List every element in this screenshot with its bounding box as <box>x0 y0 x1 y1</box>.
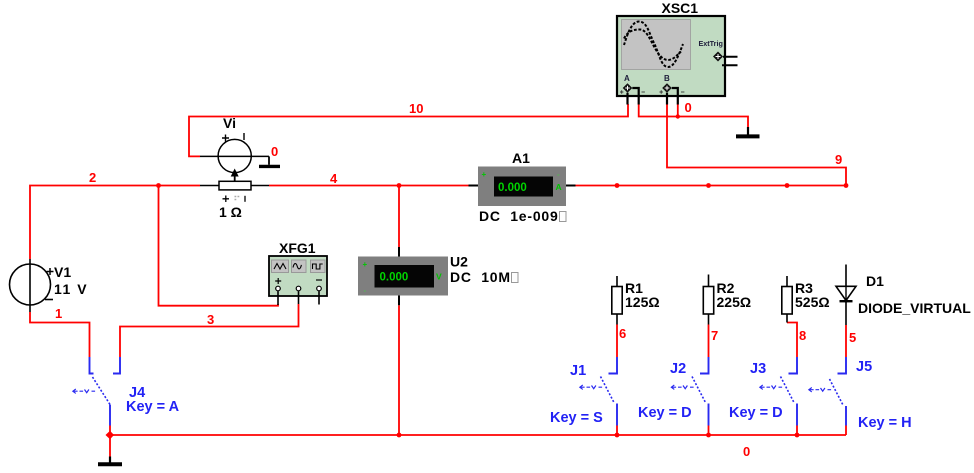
svg-text:DIODE_VIRTUAL: DIODE_VIRTUAL <box>858 300 971 316</box>
switch J4 <box>73 357 120 435</box>
wire scope ground net 0 <box>639 104 748 127</box>
U2 tofu box <box>512 273 519 283</box>
arrow into Vi <box>231 169 239 183</box>
svg-text:6: 6 <box>619 326 626 341</box>
svg-text:1: 1 <box>55 306 62 321</box>
wire net 5 (D1 to J5) <box>845 325 847 357</box>
svg-text:3: 3 <box>207 312 214 327</box>
switch J2 <box>671 357 708 435</box>
ammeter A1 <box>469 167 576 207</box>
wire net 10 (Vi left to scope A) <box>189 104 628 156</box>
junction node R3/main <box>785 183 790 188</box>
wire net 9 main (A1 to D1 column) <box>575 185 846 187</box>
svg-text:11 V: 11 V <box>54 281 88 297</box>
resistor R1 <box>612 276 622 325</box>
XFG1 terminal - <box>317 286 322 304</box>
wire net 6 (R1 to J1) <box>616 325 618 358</box>
junction node net4/U2 branch <box>397 183 402 188</box>
resistor 1 ohm trim marks <box>223 196 246 203</box>
junction node bus/J1 <box>615 433 620 438</box>
svg-text:5: 5 <box>849 330 856 345</box>
wire scope B minus stub <box>677 104 679 117</box>
svg-text:DC 10M: DC 10M <box>450 269 511 285</box>
resistor R3 <box>782 276 792 323</box>
wire ground stem bottom <box>109 435 111 457</box>
resistor R2 <box>703 275 713 325</box>
wire U2 top branch <box>398 186 400 248</box>
svg-text:DC 1e-009: DC 1e-009 <box>479 208 559 224</box>
svg-text:V: V <box>436 272 442 282</box>
wire net 4 (1-ohm to A1) <box>269 185 469 187</box>
switch J1 <box>580 357 617 435</box>
svg-text:Key = D: Key = D <box>638 405 692 421</box>
voltmeter U2 <box>358 247 448 305</box>
svg-text:Key = D: Key = D <box>729 405 783 421</box>
svg-text:+: + <box>482 170 487 179</box>
svg-text:J1: J1 <box>570 363 586 379</box>
voltage source V1 <box>10 259 54 312</box>
wire net 7 (R2 to J2) <box>708 325 710 358</box>
svg-text:B: B <box>664 74 670 83</box>
XSC1 sine trace A <box>624 22 683 68</box>
probe Vi circle <box>200 133 269 173</box>
svg-text:Key = A: Key = A <box>126 399 180 415</box>
wire U2 bottom to bus <box>398 305 400 435</box>
svg-text:A: A <box>556 182 562 192</box>
svg-text:0.000: 0.000 <box>498 182 527 194</box>
ground (Vi net 0) <box>259 156 280 166</box>
junction node bus/J2 <box>706 433 711 438</box>
wire net 9 (scope B down and across) <box>667 104 846 186</box>
junction node Bminus/net0 <box>676 114 680 118</box>
svg-text:0.000: 0.000 <box>380 272 409 284</box>
junction node R2/main <box>706 183 711 188</box>
svg-text:XFG1: XFG1 <box>279 240 316 256</box>
svg-text:Key = S: Key = S <box>550 410 603 426</box>
svg-text:4: 4 <box>330 171 338 186</box>
svg-text:Key = H: Key = H <box>858 415 912 431</box>
svg-text:ExtTrig: ExtTrig <box>699 39 723 48</box>
junction node D1/main <box>844 183 849 188</box>
svg-text:XSC1: XSC1 <box>662 0 699 16</box>
XFG1 button sine wave <box>292 260 307 273</box>
junction node bus/U2 <box>397 433 402 438</box>
ground (bottom left) <box>98 457 122 465</box>
wire net 8 (R3 to J3) <box>787 323 797 358</box>
svg-text:8: 8 <box>799 328 806 343</box>
junction node R1/main <box>615 183 620 188</box>
junction node bus/J3 <box>795 433 800 438</box>
XSC1 sine trace B <box>624 30 681 61</box>
oscilloscope XSC1 <box>617 16 725 96</box>
svg-text:A: A <box>624 74 630 83</box>
XFG1 terminal common <box>296 286 301 304</box>
XFG1 minus mark <box>316 279 322 281</box>
A1 tofu box <box>560 212 567 222</box>
function generator XFG1 <box>269 256 327 296</box>
wire ground bus net 0 <box>110 434 846 436</box>
svg-text:10: 10 <box>409 101 423 116</box>
svg-text:0: 0 <box>685 100 692 115</box>
svg-text:A1: A1 <box>512 150 530 166</box>
svg-text:J3: J3 <box>750 361 766 377</box>
svg-text:225Ω: 225Ω <box>717 294 752 310</box>
XFG1 terminal + <box>276 286 281 305</box>
XSC1 connector A <box>620 83 645 104</box>
svg-text:J5: J5 <box>856 359 872 375</box>
svg-text:0: 0 <box>271 144 278 159</box>
junction node bus/ground <box>106 431 115 439</box>
svg-text:7: 7 <box>711 328 718 343</box>
svg-text:9: 9 <box>835 152 842 167</box>
diode D1 <box>836 265 856 326</box>
XFG1 plus mark <box>275 278 281 284</box>
svg-text:0: 0 <box>743 444 750 459</box>
svg-text:U2: U2 <box>450 254 468 270</box>
svg-text:125Ω: 125Ω <box>625 294 660 310</box>
wire net 3 (XFG common to J4) <box>120 304 299 357</box>
svg-text:1 Ω: 1 Ω <box>219 204 242 220</box>
resistor 1 ohm <box>200 181 269 190</box>
svg-text:2: 2 <box>89 170 96 185</box>
svg-text:525Ω: 525Ω <box>795 294 830 310</box>
svg-text:D1: D1 <box>866 273 884 289</box>
svg-text:J2: J2 <box>670 361 686 377</box>
svg-text:+: + <box>363 260 368 269</box>
svg-text:-: - <box>557 170 560 179</box>
XSC1 ExtTrig connector <box>713 52 738 66</box>
XFG1 button triangle wave <box>272 260 289 273</box>
XFG1 button square wave <box>311 260 326 273</box>
switch J5 <box>809 357 846 435</box>
wire XFG1 + branch <box>159 186 279 306</box>
XSC1 connector B <box>660 83 685 104</box>
svg-text:-: - <box>364 286 367 295</box>
wire net 2 (V1 top to 1-ohm resistor) <box>30 186 200 260</box>
svg-text:V1: V1 <box>54 264 71 280</box>
switch J3 <box>760 357 797 435</box>
ground (scope net 0) <box>736 127 760 136</box>
junction node net2/XFG+ branch <box>156 183 161 188</box>
svg-text:Vi: Vi <box>223 115 236 131</box>
wire net 1 (V1 bottom to J4) <box>30 312 90 357</box>
